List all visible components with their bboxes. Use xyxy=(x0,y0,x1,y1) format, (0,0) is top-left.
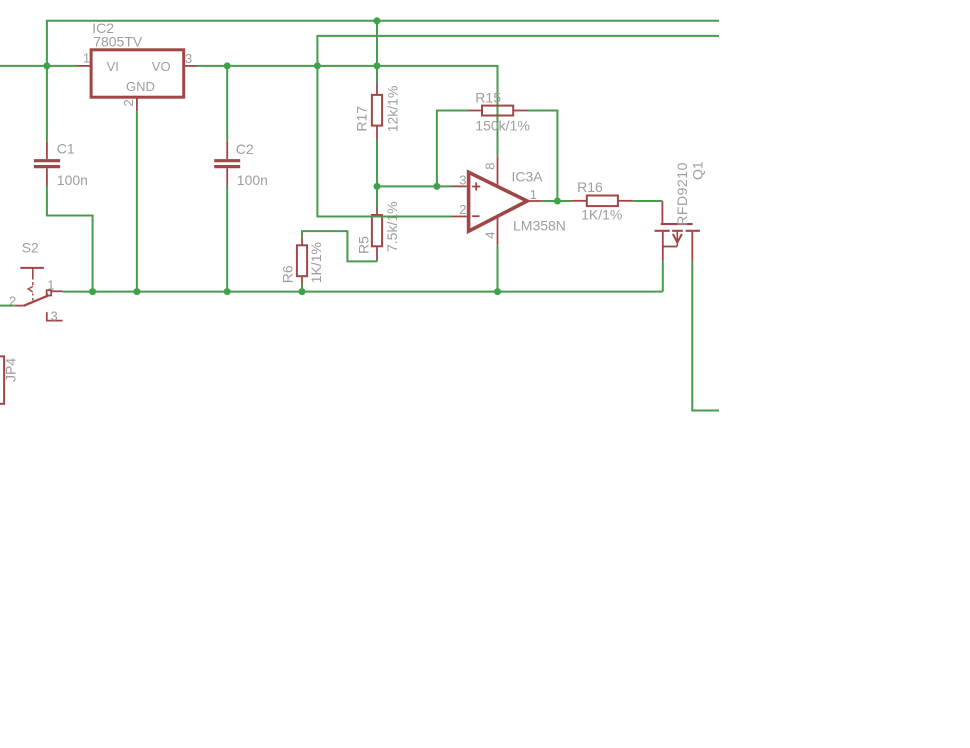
svg-text:1: 1 xyxy=(83,51,90,66)
wire second rail / loop to pin 2 xyxy=(317,36,719,217)
svg-text:GND: GND xyxy=(126,79,155,94)
junction bus / GND xyxy=(133,288,140,295)
wire R16 to gate xyxy=(633,200,662,202)
junction VO / loop column xyxy=(314,62,321,69)
junction R15 left leg xyxy=(433,183,440,190)
junction divider node xyxy=(374,183,381,190)
wire R17 bottom / divider node xyxy=(376,140,378,208)
svg-text:1K/1%: 1K/1% xyxy=(308,242,324,283)
svg-text:R15: R15 xyxy=(475,89,501,105)
svg-text:S2: S2 xyxy=(22,240,39,256)
svg-text:RFD9210: RFD9210 xyxy=(674,162,690,226)
resistor R5 7.5k/1% xyxy=(355,201,400,261)
wire S2 pin 2 xyxy=(0,305,13,307)
svg-text:1: 1 xyxy=(530,187,537,202)
svg-text:C2: C2 xyxy=(236,141,254,157)
switch S2 xyxy=(9,240,63,324)
svg-text:7.5k/1%: 7.5k/1% xyxy=(384,201,400,252)
wire C1 top xyxy=(46,66,48,141)
wire C1 bottom to ground bus xyxy=(47,186,93,292)
connector JP4 xyxy=(0,356,19,403)
svg-text:R17: R17 xyxy=(354,106,370,132)
op-amp IC3A LM358N xyxy=(451,156,566,245)
svg-text:2: 2 xyxy=(121,99,136,106)
svg-text:2: 2 xyxy=(459,202,466,217)
voltage regulator IC2 7805TV xyxy=(78,20,199,111)
svg-text:3: 3 xyxy=(459,173,466,188)
wire R15 right leg xyxy=(528,111,557,202)
resistor R17 12k/1% xyxy=(354,83,401,140)
svg-text:R16: R16 xyxy=(577,179,603,195)
svg-text:C1: C1 xyxy=(57,140,75,156)
svg-text:3: 3 xyxy=(51,309,58,324)
svg-text:Q1: Q1 xyxy=(690,161,706,180)
svg-text:8: 8 xyxy=(483,162,498,169)
svg-text:VO: VO xyxy=(152,59,171,74)
wire VCC top rail xyxy=(47,21,719,64)
wire R15 left leg xyxy=(437,111,467,187)
wire C2 top xyxy=(226,66,228,141)
wire C2 bottom xyxy=(226,186,228,292)
wire op-amp pin 4 to bus xyxy=(497,245,499,291)
wire R17 top xyxy=(376,21,378,83)
junction dots xyxy=(43,17,561,295)
svg-text:VI: VI xyxy=(107,59,119,74)
svg-text:1K/1%: 1K/1% xyxy=(581,207,622,223)
junction VI input / C1 xyxy=(43,62,50,69)
svg-text:R5: R5 xyxy=(355,236,371,254)
wire R6 bottom xyxy=(301,284,303,292)
wire input to VI xyxy=(0,65,78,67)
svg-text:100n: 100n xyxy=(237,172,268,188)
svg-text:R6: R6 xyxy=(279,265,295,283)
wire ground bus xyxy=(63,291,663,293)
svg-text:1: 1 xyxy=(47,278,54,293)
svg-text:150k/1%: 150k/1% xyxy=(475,117,529,133)
wire node to op-amp pin 3 xyxy=(377,185,451,187)
resistor R6 1K/1% xyxy=(279,238,324,284)
junction bus / R6 xyxy=(299,288,306,295)
wire R6 top link to R5 xyxy=(302,231,377,261)
svg-text:LM358N: LM358N xyxy=(513,217,566,233)
wire source to bus xyxy=(662,261,664,291)
svg-text:4: 4 xyxy=(483,232,498,239)
svg-text:100n: 100n xyxy=(57,172,88,188)
wires (green nets) xyxy=(0,21,719,411)
junction VO / C2 xyxy=(224,62,231,69)
transistor Q1 RFD9210 p-mosfet xyxy=(655,161,706,261)
svg-text:12k/1%: 12k/1% xyxy=(384,86,400,133)
junction output node xyxy=(554,198,561,205)
wire op-amp output to R16 and gate xyxy=(541,200,572,202)
junction bus / pin 4 xyxy=(494,288,501,295)
wire VO net xyxy=(198,66,498,156)
svg-text:JP4: JP4 xyxy=(3,358,19,382)
junction bus / C1 xyxy=(89,288,96,295)
capacitor C2 100n xyxy=(214,141,268,188)
junction VO / R17 xyxy=(374,62,381,69)
junction bus / C2 xyxy=(224,288,231,295)
junction top rail / R17 column xyxy=(374,17,381,24)
resistor R16 1K/1% xyxy=(572,179,633,223)
wire drain out xyxy=(692,261,719,410)
capacitor C1 100n xyxy=(34,140,88,187)
svg-text:IC3A: IC3A xyxy=(512,169,544,185)
resistor R15 150k/1% xyxy=(467,89,529,133)
svg-text:7805TV: 7805TV xyxy=(93,33,143,49)
svg-text:3: 3 xyxy=(185,51,192,66)
wire GND pin to bus xyxy=(136,111,138,292)
